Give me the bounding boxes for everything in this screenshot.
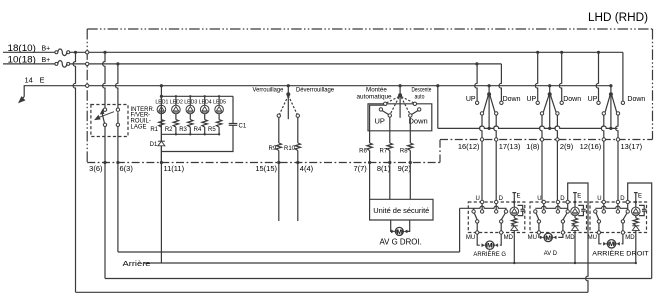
lock switch blade pole2 (closed) <box>117 112 119 123</box>
svg-text:LHD (RHD): LHD (RHD) <box>588 12 648 24</box>
svg-text:R7: R7 <box>380 148 388 154</box>
resistor R6 <box>367 143 372 151</box>
svg-text:C1: C1 <box>239 124 247 130</box>
switch stem to common bus <box>549 94 551 128</box>
fuse 18(10) <box>55 51 58 54</box>
svg-text:R9: R9 <box>269 146 277 152</box>
wire lock switch pole2 to terminal 6(3) <box>117 126 119 162</box>
svg-text:R8: R8 <box>400 148 408 154</box>
connector circle bus2 enters unit <box>86 62 89 65</box>
svg-text:U: U <box>476 196 480 202</box>
motor AV G DROI. (driver window) <box>395 227 403 235</box>
wire LED return to Arriere bus <box>513 230 515 263</box>
illumination diode <box>572 225 579 227</box>
wire 11(11) main column (E to terminal) <box>160 86 162 163</box>
wire bus2 to lock switch pole 2 (hops E) <box>116 62 119 65</box>
svg-text:E: E <box>577 194 581 200</box>
connector circle E enters unit <box>86 84 89 87</box>
svg-text:D: D <box>620 196 625 202</box>
illumination resistor <box>574 216 576 218</box>
wires pivots to MU MD <box>538 223 540 231</box>
resistor R8 <box>408 143 413 151</box>
svg-text:8(1): 8(1) <box>377 164 391 173</box>
wire LED cathode bus <box>161 133 219 135</box>
paddle switch group at x=489.1 <box>488 84 491 87</box>
wires blade to terminals (hop common bus) <box>601 115 603 138</box>
wire 15(15) stub down <box>278 163 280 222</box>
wires pivots to MU MD <box>476 223 478 231</box>
switch blades and pivots <box>474 213 477 220</box>
svg-text:MD: MD <box>504 235 514 241</box>
wires pivots to MU MD <box>598 223 600 231</box>
svg-text:UP: UP <box>375 117 385 126</box>
node terminal 6(3) <box>116 161 119 164</box>
resistor R3 <box>189 114 191 120</box>
lock switch blade pole1 (open, arrow tip) <box>102 113 105 124</box>
node terminal 11(11) <box>160 161 163 164</box>
feed contacts <box>597 101 600 104</box>
wires U D into contacts <box>481 204 483 210</box>
wire L3 riser loop to ARRIERE DROIT unit <box>628 183 652 279</box>
motor ARRIERE DROIT <box>599 234 602 244</box>
switch stem to common bus <box>488 94 490 128</box>
svg-text:9(2): 9(2) <box>398 164 412 173</box>
wire bus1 feed <box>3 51 56 53</box>
wires blade to terminals (hop common bus) <box>540 115 542 138</box>
switch blades <box>483 96 488 112</box>
lock switch actuator arrow <box>99 112 114 118</box>
svg-text:2(9): 2(9) <box>560 142 574 151</box>
fuse 10(18) <box>55 62 58 65</box>
door unit ARRIERE DROIT <box>590 202 647 233</box>
svg-text:B+: B+ <box>42 57 51 64</box>
resistor R9 <box>278 117 280 143</box>
door unit AV D <box>530 202 587 233</box>
boundary step <box>439 140 441 163</box>
svg-text:R4: R4 <box>194 127 202 133</box>
svg-text:Unité de sécurité: Unité de sécurité <box>373 206 429 215</box>
svg-text:MU: MU <box>466 235 475 241</box>
wire 7(7) to safety unit <box>369 163 371 200</box>
illumination LED chain <box>574 201 577 204</box>
svg-text:R2: R2 <box>165 127 173 133</box>
svg-text:UP: UP <box>588 96 598 103</box>
wire 4(4) stub down <box>297 163 299 222</box>
svg-text:UP: UP <box>466 96 476 103</box>
wires blade to terminals (hop common bus) <box>480 115 482 138</box>
wire bottom bus L1 <box>118 251 460 253</box>
svg-text:D: D <box>499 196 504 202</box>
svg-text:Down: Down <box>563 96 581 103</box>
wires U D into contacts <box>603 204 605 210</box>
common feed line inside unit <box>535 206 567 210</box>
svg-text:Verrouillage: Verrouillage <box>253 87 284 94</box>
ground arrow <box>22 97 24 99</box>
wire lock switch pole1 to terminal 3(6) <box>104 126 106 162</box>
svg-text:M: M <box>487 243 492 250</box>
node terminal 9(2) <box>409 161 412 164</box>
svg-text:17(13): 17(13) <box>499 142 521 151</box>
svg-text:R5: R5 <box>208 127 216 133</box>
terminals U D on unit <box>602 200 605 203</box>
right terminal line of main switch <box>440 139 653 141</box>
feed contacts <box>475 101 478 104</box>
node E line to LED bus / 11(11) <box>160 84 163 87</box>
switch blades <box>605 96 610 112</box>
svg-text:Down: Down <box>409 117 428 126</box>
auto switch blades (dashed) <box>387 97 399 103</box>
feed contacts <box>594 210 597 213</box>
door unit ARRIERE G <box>468 202 525 233</box>
illumination resistor <box>635 216 637 218</box>
terminals U D on unit <box>542 200 545 203</box>
common feed line inside unit <box>460 206 506 210</box>
svg-text:E: E <box>638 194 642 200</box>
switch blades and pivots <box>596 213 599 220</box>
svg-text:Déverrouillage: Déverrouillage <box>296 87 334 94</box>
wire LED return to Arriere bus <box>574 230 576 263</box>
wire bus1 to group3 UP feed (hops E) <box>597 51 600 54</box>
wire UP contact to R7 <box>389 117 391 143</box>
wire LED anode bus <box>161 95 233 97</box>
wire bus1 end to group3 Down feed <box>622 52 624 101</box>
svg-text:auto: auto <box>415 93 425 100</box>
svg-text:3(6): 3(6) <box>89 164 103 173</box>
auto switch contact links <box>382 111 389 115</box>
svg-text:E: E <box>40 76 45 85</box>
wire Down contact to R8 <box>409 117 411 143</box>
resistor R1 <box>160 114 162 120</box>
svg-text:R3: R3 <box>179 127 187 133</box>
node terminal 4(4) <box>296 161 299 164</box>
svg-text:MD: MD <box>565 235 575 241</box>
switch blades <box>543 96 548 112</box>
wire 11(11) down to Arriere bus L2 <box>160 163 162 264</box>
svg-text:D: D <box>560 196 565 202</box>
svg-text:1(8): 1(8) <box>526 142 540 151</box>
wire LED return to Arriere bus <box>635 230 637 263</box>
left terminal line of main switch <box>87 162 440 164</box>
wire UP-auto contact to R6 <box>370 105 384 143</box>
svg-text:U: U <box>537 196 541 202</box>
wire 6(3) down to bottom bus L1 <box>117 163 119 253</box>
svg-text:ARRIÈRE G: ARRIÈRE G <box>473 249 506 258</box>
auto switch contacts <box>384 102 387 105</box>
svg-text:R1: R1 <box>150 127 158 133</box>
svg-text:E: E <box>517 194 521 200</box>
feed entry from loop <box>567 200 569 208</box>
illumination diode <box>511 225 518 227</box>
switch stem to common bus <box>610 94 612 128</box>
svg-text:LAGE: LAGE <box>131 124 147 130</box>
paddle switch group at x=549.7 <box>548 84 551 87</box>
svg-text:16(12): 16(12) <box>458 142 480 151</box>
svg-text:18(10): 18(10) <box>8 43 36 53</box>
wire Arriere bus L2 <box>143 262 636 264</box>
feed contacts <box>473 208 475 210</box>
svg-text:13(17): 13(17) <box>621 142 643 151</box>
resistor R7 <box>387 143 392 151</box>
svg-text:U: U <box>597 196 601 202</box>
switch blades and pivots <box>536 213 539 220</box>
svg-text:R10: R10 <box>284 146 296 152</box>
svg-text:10(18): 10(18) <box>8 55 36 65</box>
svg-text:B+: B+ <box>42 46 51 53</box>
node terminal 7(7) <box>368 161 371 164</box>
wire 8(1) to safety unit <box>389 163 391 200</box>
resistor R10 <box>297 117 299 143</box>
resistor R4 <box>204 114 206 120</box>
wire bus2 end to group1 Down feed (hops E) <box>499 64 501 101</box>
resistor R5 <box>218 114 220 120</box>
node terminal 3(6) <box>103 161 106 164</box>
wire 9(2) to safety unit <box>409 163 411 200</box>
svg-text:automatique: automatique <box>357 93 392 100</box>
svg-text:Down: Down <box>503 96 521 103</box>
paddle switch group at x=610.9 <box>609 84 612 87</box>
svg-text:M: M <box>397 229 402 236</box>
connector circle bus1 enters unit <box>86 51 89 54</box>
lock switch contacts <box>103 108 106 111</box>
wires U D into contacts <box>543 204 545 210</box>
lock/unlock rocker switch <box>287 84 290 87</box>
common feed line inside unit <box>595 206 627 210</box>
wire bus1 to group2 UP feed (hops E) <box>536 51 539 54</box>
driver window auto switch <box>399 84 402 87</box>
wire L1 riser feeding ARRIERE G unit <box>459 208 461 252</box>
wire bus1 to lock switch pole 1 (hops bus2, E) <box>103 51 106 54</box>
svg-text:11(11): 11(11) <box>164 164 185 173</box>
svg-text:D1: D1 <box>150 142 158 148</box>
svg-text:AV G DROI.: AV G DROI. <box>380 238 422 247</box>
main switch unit boundary (dash-dot box with step) <box>87 28 652 30</box>
wire switch common bus (hops over contact wires) <box>438 126 618 128</box>
svg-text:12(16): 12(16) <box>580 142 602 151</box>
svg-text:MD: MD <box>625 235 635 241</box>
wire safety unit to driver motor <box>391 220 394 231</box>
terminals U D on unit <box>480 200 483 203</box>
svg-text:Down: Down <box>627 96 645 103</box>
window-lock switch box <box>91 105 128 137</box>
node terminal 8(1) <box>388 161 391 164</box>
svg-text:14: 14 <box>25 76 33 85</box>
svg-text:7(7): 7(7) <box>353 164 367 173</box>
wire B+ drop to bottom bus L4 (hops bus2 and E) <box>74 51 77 54</box>
svg-text:UP: UP <box>526 96 536 103</box>
svg-text:MU: MU <box>528 235 537 241</box>
wire bottom bus L4 <box>76 291 589 293</box>
motor AV D <box>537 234 540 237</box>
svg-text:ARRIÈRE DROIT: ARRIÈRE DROIT <box>592 249 648 258</box>
capacitor across LED <box>639 205 646 215</box>
capacitor across LED <box>518 205 525 215</box>
wire E line <box>24 86 611 97</box>
svg-text:15(15): 15(15) <box>255 164 277 173</box>
feed entry from loop <box>627 200 629 208</box>
illumination LED chain <box>635 201 638 204</box>
auto switch body box <box>368 104 432 131</box>
illumination LED chain <box>513 201 516 204</box>
svg-text:4(4): 4(4) <box>300 164 314 173</box>
svg-text:MU: MU <box>588 235 597 241</box>
wire bus2 feed <box>3 63 56 65</box>
capacitor C1 branch <box>161 96 237 151</box>
wire E riser to switch common bus <box>436 84 439 87</box>
wire 3(6) down to bottom bus L3 <box>104 163 106 279</box>
svg-text:M: M <box>609 241 614 248</box>
capacitor across LED <box>578 205 585 215</box>
wire L4 riser to AV D unit (hops L3) <box>568 183 588 292</box>
svg-text:6(3): 6(3) <box>120 164 134 173</box>
resistor R2 <box>175 114 177 120</box>
safety unit box <box>370 199 433 220</box>
node terminal 15(15) <box>277 161 280 164</box>
wire bus2 (B+ from fuse 10(18)) <box>70 63 502 65</box>
feed contacts <box>536 101 539 104</box>
svg-text:R6: R6 <box>359 148 367 154</box>
illumination resistor <box>513 216 515 218</box>
svg-text:AV D: AV D <box>544 250 557 257</box>
illumination diode <box>632 225 639 227</box>
motor ARRIERE G <box>477 234 480 245</box>
wire bus1 (B+ from fuse 18(10)) <box>70 51 623 53</box>
wire bus2 to group1 UP feed (hops E) <box>475 62 478 65</box>
wire bottom bus L3 <box>105 278 652 280</box>
feed contacts <box>534 210 537 213</box>
svg-text:M: M <box>546 235 551 242</box>
wire bus1 to group2 Down feed (hops E) <box>560 51 563 54</box>
